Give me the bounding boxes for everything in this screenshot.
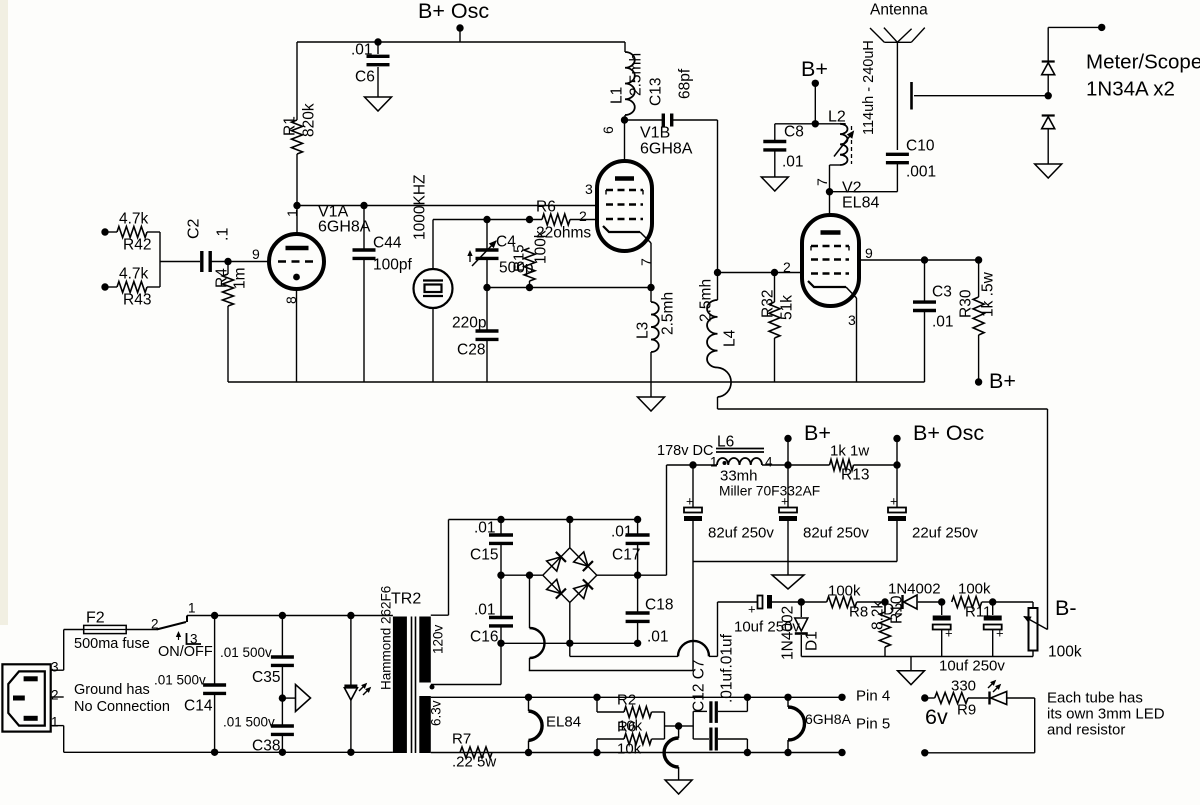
svg-text:114uh - 240uH: 114uh - 240uH [861,40,877,135]
svg-text:+: + [945,626,953,641]
svg-text:Miller 70F332AF: Miller 70F332AF [719,484,820,499]
svg-text:F2: F2 [86,610,105,627]
svg-text:+: + [890,494,898,509]
svg-text:820k: 820k [301,103,318,137]
svg-text:C12 C7: C12 C7 [691,659,708,712]
svg-text:+: + [748,602,756,617]
svg-text:.01: .01 [351,42,373,59]
svg-text:L1: L1 [609,87,626,104]
svg-text:82uf 250v: 82uf 250v [803,525,869,542]
svg-text:8: 8 [283,296,299,304]
svg-text:3: 3 [848,312,856,328]
svg-text:TR2: TR2 [391,591,421,608]
svg-text:1k 1w: 1k 1w [830,443,869,460]
svg-text:100k: 100k [533,230,550,264]
svg-text:6GH8A: 6GH8A [805,711,852,727]
svg-text:EL84: EL84 [842,195,879,212]
svg-text:+: + [781,494,789,509]
svg-text:2.5mh: 2.5mh [660,292,677,335]
svg-text:Meter/Scope: Meter/Scope [1086,51,1200,74]
svg-text:.001: .001 [906,164,936,181]
svg-text:B-: B- [1055,596,1077,620]
svg-text:Hammond 262F6: Hammond 262F6 [379,586,394,690]
svg-text:3: 3 [585,181,593,197]
svg-text:D2: D2 [883,602,903,619]
svg-text:and resistor: and resistor [1047,722,1125,739]
svg-text:6GH8A: 6GH8A [640,141,693,158]
svg-text:L2: L2 [828,109,846,126]
svg-text:100pf: 100pf [373,257,412,274]
svg-text:.01 500v: .01 500v [223,715,275,730]
svg-text:L3: L3 [635,322,652,339]
svg-text:1m: 1m [232,267,249,289]
svg-text:R2: R2 [617,692,636,709]
svg-text:51k: 51k [779,295,796,320]
svg-text:+: + [686,494,694,509]
svg-text:6: 6 [600,126,616,134]
svg-text:500ma fuse: 500ma fuse [74,636,150,652]
svg-text:6.3v: 6.3v [429,700,444,726]
svg-text:1: 1 [284,209,300,217]
svg-text:R6: R6 [536,199,556,216]
svg-text:C15: C15 [470,547,498,564]
svg-text:7: 7 [638,258,654,266]
svg-text:B+ Osc: B+ Osc [418,0,489,23]
svg-text:6v: 6v [925,705,948,729]
svg-text:EL84: EL84 [546,714,581,731]
svg-text:1000KHZ: 1000KHZ [412,175,429,240]
svg-text:10k: 10k [617,741,642,758]
svg-text:B+: B+ [801,57,828,81]
svg-text:B+: B+ [989,369,1016,393]
svg-text:4: 4 [765,455,773,470]
svg-text:No Connection: No Connection [74,699,170,715]
svg-text:C2: C2 [186,218,203,239]
svg-text:.01 500v: .01 500v [154,673,206,688]
svg-text:B+: B+ [804,421,831,445]
svg-text:4.7k: 4.7k [119,266,149,283]
svg-text:.01: .01 [647,629,669,646]
svg-text:2.5mh: 2.5mh [698,279,715,322]
svg-text:D1: D1 [804,631,821,651]
svg-text:R42: R42 [123,237,151,254]
svg-text:R8: R8 [849,604,868,621]
svg-text:C18: C18 [645,597,673,614]
svg-text:R7: R7 [452,731,471,748]
svg-text:10uf 250v: 10uf 250v [939,658,1005,675]
svg-text:C3: C3 [932,284,952,301]
svg-text:7: 7 [814,178,830,186]
svg-text:4.7k: 4.7k [119,211,149,228]
svg-text:C17: C17 [612,547,640,564]
svg-text:C16: C16 [470,629,498,646]
svg-text:R32: R32 [760,290,777,318]
svg-text:1N4002: 1N4002 [888,581,941,598]
svg-text:.1: .1 [215,228,232,241]
svg-text:L4: L4 [722,329,739,347]
svg-text:9: 9 [252,246,260,262]
svg-text:L6: L6 [717,434,734,451]
svg-text:C44: C44 [373,235,402,252]
svg-text:V1B: V1B [640,125,670,142]
svg-text:C13: C13 [648,78,665,106]
svg-text:R13: R13 [841,467,869,484]
svg-text:its own 3mm LED: its own 3mm LED [1047,706,1165,723]
svg-text:C28: C28 [457,342,485,359]
svg-text:330: 330 [951,678,976,695]
svg-text:82uf 250v: 82uf 250v [708,525,774,542]
svg-text:R4: R4 [214,268,231,288]
svg-text:6GH8A: 6GH8A [318,219,371,236]
svg-text:R43: R43 [123,292,151,309]
svg-text:Pin 5: Pin 5 [856,716,890,733]
svg-text:.01: .01 [932,314,954,331]
svg-text:.22 5w: .22 5w [452,754,496,771]
svg-text:B+ Osc: B+ Osc [913,421,984,445]
svg-text:.01 500v: .01 500v [220,645,272,660]
svg-text:2: 2 [783,259,791,275]
svg-text:Ground has: Ground has [74,682,150,698]
svg-text:1: 1 [710,455,718,470]
svg-text:1: 1 [188,601,196,616]
svg-text:9: 9 [865,245,873,261]
svg-text:100k: 100k [958,581,991,598]
svg-text:2: 2 [51,688,59,703]
svg-text:.01: .01 [611,524,633,541]
svg-text:.01uf.01uf: .01uf.01uf [719,633,736,703]
svg-text:1N4002: 1N4002 [780,606,797,660]
svg-text:2: 2 [579,208,587,224]
svg-text:.01: .01 [474,520,496,537]
svg-text:33mh: 33mh [720,468,758,485]
svg-text:1k .5w: 1k .5w [980,271,997,317]
svg-text:C14: C14 [184,698,213,715]
svg-text:Antenna: Antenna [870,2,928,19]
svg-text:Each tube has: Each tube has [1047,690,1143,707]
svg-text:.01: .01 [782,154,804,171]
svg-text:3: 3 [51,660,59,675]
svg-text:2: 2 [151,617,159,632]
svg-text:68pf: 68pf [677,68,694,99]
svg-text:C35: C35 [252,669,280,686]
svg-text:22uf 250v: 22uf 250v [912,525,978,542]
svg-text:1: 1 [51,715,59,730]
svg-text:100k: 100k [828,583,861,600]
svg-text:1N34A x2: 1N34A x2 [1086,78,1175,101]
svg-text:C38: C38 [252,738,280,755]
svg-text:C6: C6 [355,69,375,86]
svg-text:R6: R6 [617,719,636,736]
svg-text:ON/OFF: ON/OFF [158,644,213,660]
svg-text:R9: R9 [957,702,976,719]
svg-text:100k: 100k [1048,644,1082,661]
svg-text:178v DC: 178v DC [657,443,713,459]
svg-text:120v: 120v [431,624,446,654]
svg-text:.01: .01 [474,602,496,619]
svg-text:R30: R30 [958,289,975,318]
svg-text:R1: R1 [282,116,299,136]
svg-text:Pin 4: Pin 4 [856,688,890,705]
svg-text:+: + [996,626,1004,641]
svg-text:C10: C10 [906,138,935,155]
svg-text:2.5mh: 2.5mh [628,53,645,96]
svg-text:220p: 220p [452,315,486,332]
svg-text:C8: C8 [784,124,804,141]
